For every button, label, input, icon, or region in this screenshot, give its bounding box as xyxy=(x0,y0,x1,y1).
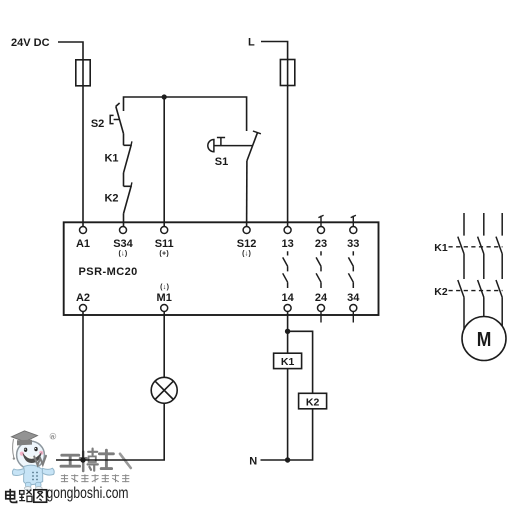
svg-text:S11: S11 xyxy=(155,238,174,250)
three-phase line L2 with contactor contacts xyxy=(478,213,484,317)
label S11 xyxy=(155,238,174,257)
terminal 33 xyxy=(350,227,357,234)
contactor K1 mechanical link xyxy=(434,242,502,254)
svg-text:S2: S2 xyxy=(91,118,104,130)
svg-text:S12: S12 xyxy=(237,238,257,250)
wire 0V bottom rail xyxy=(56,403,164,460)
svg-text:34: 34 xyxy=(347,292,360,304)
relay block PSR-MC20 body xyxy=(64,222,379,315)
svg-text:(↓): (↓) xyxy=(160,284,169,291)
svg-text:K1: K1 xyxy=(281,356,295,368)
stub above terminal 23 xyxy=(318,215,323,226)
svg-text:S34: S34 xyxy=(113,238,133,250)
coil K1 xyxy=(274,353,302,368)
button S1 start NO contact xyxy=(208,131,261,227)
wire top rail xyxy=(124,97,247,131)
motor M xyxy=(462,317,506,361)
contact K2 feedback NC xyxy=(124,182,132,213)
internal contact 13-14 xyxy=(283,251,288,288)
svg-text:24: 24 xyxy=(315,292,328,304)
watermark mascot xyxy=(12,431,55,490)
svg-text:L: L xyxy=(248,37,255,49)
label S34 xyxy=(113,238,133,257)
terminal 23 xyxy=(318,227,325,234)
svg-text:A1: A1 xyxy=(76,238,90,250)
internal contact 23-24 xyxy=(316,251,321,288)
terminal A2 xyxy=(80,305,87,312)
wire fuse F2 to terminal 13 xyxy=(287,86,289,227)
watermark brand text gong bo shi xyxy=(34,449,131,471)
three-phase line L3 with contactor contacts xyxy=(496,213,502,326)
terminal M1 xyxy=(161,305,168,312)
node junction 14 branch xyxy=(285,329,290,334)
lamp indicator at M1 xyxy=(151,377,177,403)
svg-text:gongboshi.com: gongboshi.com xyxy=(47,485,129,502)
contact K1 feedback NC xyxy=(124,141,132,173)
watermark slogan small chinese text xyxy=(61,474,129,482)
svg-text:14: 14 xyxy=(281,292,294,304)
coil K2 xyxy=(299,393,327,409)
svg-text:A2: A2 xyxy=(76,292,90,304)
contactor K2 mechanical link xyxy=(434,286,502,298)
terminal 13 xyxy=(284,227,291,234)
wire N xyxy=(261,459,288,461)
svg-text:24V DC: 24V DC xyxy=(11,37,50,49)
wire S2 to K1 contact xyxy=(123,134,125,146)
svg-text:23: 23 xyxy=(315,238,327,250)
three-phase line L1 with contactor contacts xyxy=(458,213,464,329)
svg-text:K2: K2 xyxy=(306,396,320,408)
svg-text:M1: M1 xyxy=(157,292,172,304)
wire fuse F1 to terminal A1 xyxy=(82,86,84,227)
wire K2 to terminal S34 xyxy=(123,214,125,227)
terminal 14 xyxy=(284,305,291,312)
wire L supply to fuse xyxy=(261,42,288,60)
terminal S12 xyxy=(243,227,250,234)
label M1 xyxy=(157,284,172,304)
wire coil K2 to bottom xyxy=(288,409,313,460)
svg-text:K2: K2 xyxy=(104,192,118,204)
wire K1 to K2 contact xyxy=(123,173,125,186)
svg-text:13: 13 xyxy=(281,238,293,250)
terminal A1 xyxy=(80,227,87,234)
wire to coil K1 xyxy=(287,331,289,353)
node junction rail-S11 xyxy=(162,94,167,99)
stub above terminal 33 xyxy=(351,215,356,226)
terminal 24 xyxy=(318,305,325,312)
internal contact 33-34 xyxy=(348,251,353,288)
svg-text:K1: K1 xyxy=(104,152,118,164)
svg-text:PSR-MC20: PSR-MC20 xyxy=(79,266,138,278)
svg-text:M: M xyxy=(477,328,492,351)
fuse F2 xyxy=(280,60,294,86)
svg-text:K1: K1 xyxy=(434,242,448,254)
switch S2 e-stop NC contact xyxy=(110,103,123,134)
terminal S11 xyxy=(161,227,168,234)
svg-text:S1: S1 xyxy=(215,156,228,168)
wire A2 down xyxy=(82,312,84,460)
fuse F1 xyxy=(76,60,90,86)
node A2 bottom junction xyxy=(80,457,85,462)
stub below terminal 34 xyxy=(352,312,354,323)
svg-text:(+): (+) xyxy=(159,250,169,257)
wire M1 to lamp xyxy=(163,312,165,378)
wire 24V supply to fuse xyxy=(58,42,83,60)
svg-text:N: N xyxy=(249,455,257,467)
wire 14 down xyxy=(287,312,289,332)
watermark registered mark xyxy=(50,433,56,439)
node junction N xyxy=(285,457,290,462)
stub below terminal 24 xyxy=(320,312,322,323)
watermark dianlutu text xyxy=(6,489,47,503)
terminal 34 xyxy=(350,305,357,312)
wire branch to coil K2 xyxy=(288,331,313,393)
svg-text:33: 33 xyxy=(347,238,359,250)
terminal S34 xyxy=(120,227,127,234)
svg-text:K2: K2 xyxy=(434,286,448,298)
label S12 xyxy=(237,238,257,257)
svg-text:(↓): (↓) xyxy=(242,250,251,257)
svg-text:(↓): (↓) xyxy=(118,250,127,257)
wire S11 drop xyxy=(163,97,165,227)
wire coil K1 to bottom xyxy=(287,369,289,460)
